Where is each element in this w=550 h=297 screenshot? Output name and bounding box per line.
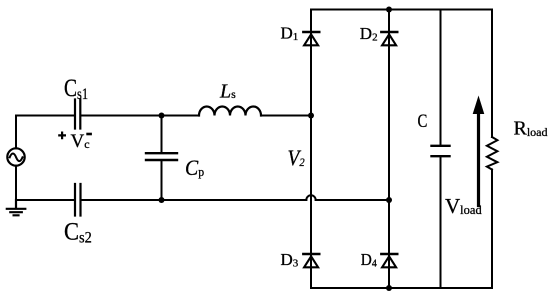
svg-text:Cs1: Cs1 [64, 74, 88, 104]
arrowhead Vload [473, 96, 485, 115]
node dot Cp bottom junction [159, 197, 165, 203]
node dot Cp top junction [159, 113, 165, 119]
wire bridge top rail [311, 9, 492, 11]
arrow Vload [477, 111, 480, 206]
wire load leg [491, 10, 493, 289]
capacitor Cp [146, 153, 177, 160]
wire Ls to bridge node V2 [261, 115, 311, 117]
label +Vc- polarity [58, 132, 66, 140]
wire Cs2 to Cp bottom node [82, 199, 307, 201]
svg-text:Cs2: Cs2 [64, 219, 92, 247]
capacitor C [432, 146, 450, 156]
wire filter cap leg [440, 10, 442, 289]
wire top rail left segment [16, 115, 74, 117]
capacitor Cs2 [75, 184, 81, 216]
svg-text:Cp: Cp [185, 155, 204, 180]
wire bridge bottom rail [311, 287, 492, 289]
wire bottom rail left segment [16, 199, 74, 201]
svg-text:D1: D1 [281, 24, 299, 44]
svg-text:C: C [417, 110, 427, 131]
node dot bottom wire to D2-D4 leg [386, 197, 392, 203]
diode D3 [303, 254, 319, 267]
node V2 junction [308, 113, 314, 119]
ground [7, 200, 26, 215]
wire bridge second leg [388, 10, 390, 289]
node dot top rail leg B [386, 7, 392, 13]
svg-text:Ls: Ls [219, 81, 236, 103]
diode D4 [381, 254, 397, 267]
svg-text:D3: D3 [281, 250, 299, 270]
svg-text:Vload: Vload [445, 194, 482, 218]
wire hop to D2-D4 midpoint [316, 199, 389, 201]
inductor Ls [199, 107, 261, 116]
node dot bottom rail leg B [386, 285, 392, 291]
wire hop over bridge left leg [306, 195, 315, 200]
svg-text:D2: D2 [360, 24, 378, 44]
wire source bottom lead [15, 166, 17, 200]
capacitor Cs1 [75, 100, 80, 129]
wire Cs1 to Cp node [82, 115, 200, 117]
wire source top lead [15, 116, 17, 149]
wire bridge left leg [310, 10, 312, 289]
resistor Rload zigzag [487, 137, 498, 170]
svg-text:D4: D4 [361, 251, 378, 269]
wire Cp branch [161, 116, 163, 201]
AC source V1 [7, 148, 24, 165]
diode D1 [303, 32, 319, 45]
AC source sine wave [10, 154, 23, 162]
diode D2 [381, 32, 397, 45]
svg-text:Rload: Rload [514, 118, 548, 140]
svg-text:V2: V2 [288, 147, 305, 170]
